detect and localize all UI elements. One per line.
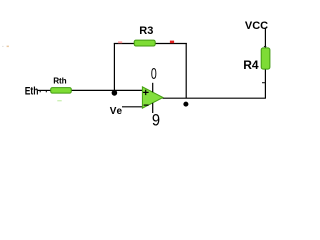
svg-text:Eth: Eth [25,85,39,97]
svg-text:R3: R3 [139,25,153,37]
svg-text:9: 9 [152,112,160,130]
svg-text:Ve: Ve [110,106,123,117]
svg-text:VCC: VCC [245,20,268,32]
svg-text:R4: R4 [243,58,259,72]
svg-text:Rth: Rth [53,77,66,86]
svg-text:0: 0 [151,66,157,83]
